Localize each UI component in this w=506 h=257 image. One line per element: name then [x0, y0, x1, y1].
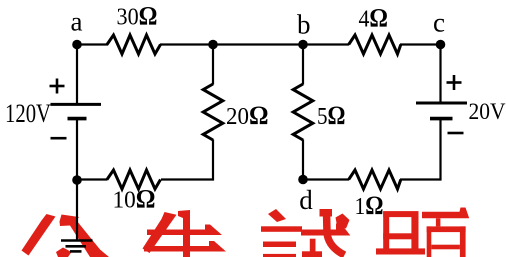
red watermark character 4 (ti) stroke: sun-box left vertical	[383, 212, 389, 255]
svg-text:b: b	[297, 10, 311, 40]
red watermark character 2 (sheng) stroke: lower horizontal with serif	[144, 241, 226, 252]
svg-text:d: d	[299, 185, 313, 215]
wire: node d right to 1-ohm	[303, 178, 349, 180]
wire middle column: junction down to 20-ohm	[212, 45, 214, 85]
red watermark character 3 (shi) stroke: speech radical horizontal 3	[263, 254, 296, 257]
red watermark character 2 (sheng) stroke: left-falling	[143, 212, 177, 253]
red watermark character 4 (ti) stroke: page radical small vertical	[436, 218, 441, 226]
svg-text:120V: 120V	[5, 99, 51, 128]
resistor R 1ohm (bottom right, horizontal zigzag)	[349, 170, 401, 189]
red watermark character 1 (gong) stroke: lower-left start	[56, 248, 72, 257]
svg-text:c: c	[433, 8, 445, 38]
svg-text:20V: 20V	[469, 99, 506, 125]
battery V1 120V positive long plate	[51, 103, 102, 106]
svg-text:1Ω: 1Ω	[355, 191, 384, 220]
red watermark character 1 (gong) stroke: left-falling	[22, 214, 56, 256]
wire: 1-ohm right to bottom-right corner then up to battery	[400, 119, 441, 180]
wire: bottom-left node down to ground	[76, 180, 78, 241]
svg-text:30Ω: 30Ω	[117, 1, 158, 30]
red watermark character 3 (shi) stroke: short vertical	[310, 239, 316, 257]
red watermark character 3 (shi) stroke: top dot	[268, 209, 286, 222]
wire: 10-ohm left to bottom-left node	[77, 178, 108, 180]
node c junction dot	[436, 40, 446, 50]
wire top: 30-ohm to node b (through middle junction)	[160, 43, 349, 45]
battery V1 120V minus sign	[51, 137, 67, 140]
battery V2 20V negative short plate	[430, 117, 453, 121]
wire left column: node a down to 120V battery	[76, 45, 78, 105]
svg-text:4Ω: 4Ω	[359, 4, 389, 33]
svg-text:5Ω: 5Ω	[317, 101, 346, 130]
wire left column: battery down to bottom-left node	[76, 119, 78, 180]
red watermark character 4 (ti) stroke: sun-box right vertical	[411, 212, 418, 255]
resistor R 5ohm (middle right, vertical zigzag)	[293, 84, 313, 140]
resistor R 10ohm (bottom left, horizontal zigzag)	[107, 170, 161, 189]
red watermark character 2 (sheng) stroke: upper horizontal with serif	[147, 225, 222, 236]
battery V2 20V plus sign	[447, 81, 462, 84]
node a junction dot	[72, 40, 82, 50]
resistor R 4ohm (top right, horizontal zigzag)	[349, 35, 401, 54]
svg-text:a: a	[71, 7, 83, 37]
node d junction dot	[298, 175, 308, 185]
red watermark character 4 (ti) stroke: eye-box left vertical	[427, 226, 432, 257]
red watermark character 4 (ti) stroke: eye-box inner horizontal	[431, 245, 460, 250]
battery V2 20V positive long plate	[416, 102, 467, 105]
red watermark character 3 (shi) stroke: dot of shi-part	[336, 214, 350, 229]
node: bottom-left junction dot	[72, 175, 82, 185]
red watermark character 4 (ti) stroke: eye-box right vertical	[460, 226, 466, 257]
red watermark character 3 (shi) stroke: long horizontal with serif	[301, 224, 350, 236]
battery V2 20V minus sign	[448, 132, 464, 135]
wire: 5-ohm down to node d	[302, 140, 304, 180]
red watermark character 4 (ti) stroke: long bottom horizontal	[376, 248, 425, 254]
red watermark character 4 (ti) stroke: sun-box top horizontal	[383, 211, 418, 217]
svg-text:10Ω: 10Ω	[113, 185, 156, 214]
wire middle column: 20-ohm down to bottom corner, then left to 10-ohm	[161, 140, 213, 180]
ground symbol	[61, 239, 93, 242]
red watermark character 3 (shi) stroke: bottom horizontal of work-part	[302, 251, 322, 257]
red watermark character 3 (shi) stroke: speech radical horizontal 1	[261, 226, 302, 232]
battery V1 120V negative short plate	[68, 117, 87, 121]
node b junction dot	[298, 40, 308, 50]
wire top: 4-ohm to node c	[400, 43, 441, 45]
svg-text:20Ω: 20Ω	[226, 101, 269, 130]
wire top: node a to 30-ohm resistor	[77, 43, 108, 45]
node: middle top junction dot	[208, 40, 218, 50]
resistor R 30ohm (top left, horizontal zigzag)	[107, 35, 161, 54]
red watermark character 3 (shi) stroke: slanted hook	[327, 211, 345, 255]
red watermark character 1 (gong) stroke: right-falling with serif	[60, 215, 110, 257]
wire: node b down to 5-ohm	[302, 45, 304, 85]
red watermark character 4 (ti) stroke: page radical top horizontal with serif	[422, 208, 469, 219]
wire: node c down to 20V battery	[439, 45, 441, 104]
red watermark character 2 (sheng) stroke: vertical	[178, 210, 190, 257]
red watermark character 3 (shi) stroke: top serif of hook	[320, 209, 333, 217]
red watermark character 3 (shi) stroke: speech radical horizontal 2	[263, 242, 296, 248]
red watermark character 4 (ti) stroke: sun-box middle horizontal	[383, 233, 418, 239]
resistor R 20ohm (middle, vertical zigzag)	[203, 84, 223, 140]
red watermark character 4 (ti) stroke: eye-box top horizontal	[427, 226, 466, 232]
battery V1 120V plus sign	[50, 85, 65, 88]
